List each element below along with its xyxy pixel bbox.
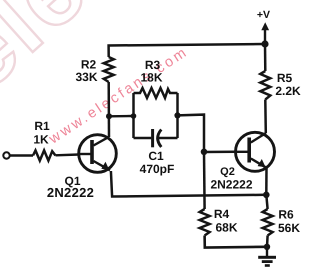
node RC box right bbox=[174, 112, 180, 118]
RC box right side wire bbox=[176, 93, 179, 138]
svg-text:68K: 68K bbox=[215, 221, 237, 235]
resistor R4 bbox=[200, 209, 210, 236]
svg-text:+V: +V bbox=[257, 9, 270, 21]
svg-text:1K: 1K bbox=[33, 133, 49, 147]
node ground junction bbox=[264, 244, 270, 250]
wire R6 bottom to ground node bbox=[266, 236, 269, 247]
+V arrow bbox=[261, 22, 269, 44]
watermark big outline text top-left bbox=[0, 0, 109, 112]
RC box bottom side wires bbox=[134, 137, 152, 140]
RC box left side wire bbox=[132, 93, 135, 138]
wire R2 top to rail corner bbox=[109, 44, 265, 57]
wire R4 bottom to bottom rail bbox=[205, 236, 267, 248]
wire emitter junction to R6 bbox=[266, 195, 267, 209]
svg-text:R4: R4 bbox=[214, 207, 230, 221]
capacitor C1 bbox=[153, 129, 162, 147]
svg-text:470pF: 470pF bbox=[140, 162, 175, 176]
node junction +V rail bbox=[261, 40, 268, 47]
input terminal bbox=[3, 152, 9, 158]
svg-text:R5: R5 bbox=[277, 71, 293, 85]
wire input to R1 bbox=[10, 154, 33, 156]
transistor Q2 bbox=[236, 132, 275, 171]
svg-text:2N2222: 2N2222 bbox=[47, 185, 94, 200]
resistor R2 bbox=[104, 57, 114, 82]
wire R1 to Q1 base bbox=[56, 153, 80, 156]
resistor R5 bbox=[260, 71, 270, 100]
svg-text:R1: R1 bbox=[34, 119, 50, 133]
svg-text:56K: 56K bbox=[278, 221, 300, 235]
node Q2 base bbox=[201, 149, 208, 156]
wire base node to Q2 bbox=[204, 151, 236, 154]
svg-text:2N2222: 2N2222 bbox=[210, 178, 252, 192]
RC box top side with resistor R3 bbox=[134, 88, 178, 98]
transistor Q1 bbox=[79, 135, 117, 173]
junction dot Q1 collector branch bbox=[106, 113, 112, 119]
wire Q1 emitter down and right (emitter rail) bbox=[111, 171, 266, 197]
wire collector node to RC box left bbox=[109, 115, 134, 118]
svg-text:R6: R6 bbox=[278, 208, 294, 222]
resistor R6 bbox=[263, 209, 273, 236]
svg-text:33K: 33K bbox=[75, 70, 97, 84]
wire junction to R5 bbox=[264, 44, 267, 71]
svg-text:2.2K: 2.2K bbox=[275, 84, 301, 98]
resistor R1 bbox=[33, 150, 56, 160]
wire RC box right to Q2 base column bbox=[178, 115, 205, 152]
wire base node down to R4 bbox=[203, 152, 206, 209]
node RC box left bbox=[131, 113, 137, 119]
ground bbox=[258, 247, 276, 267]
svg-text:Q2: Q2 bbox=[220, 166, 235, 178]
wire Q1 collector up to junction bbox=[107, 82, 110, 137]
node emitter junction bbox=[263, 192, 270, 199]
svg-text:18K: 18K bbox=[140, 71, 162, 85]
wire Q2 emitter down bbox=[265, 168, 268, 195]
watermark www.elecfans.com diagonal bbox=[46, 44, 192, 148]
wire R5 to Q2 collector bbox=[264, 100, 267, 134]
svg-text:C1: C1 bbox=[148, 149, 164, 163]
